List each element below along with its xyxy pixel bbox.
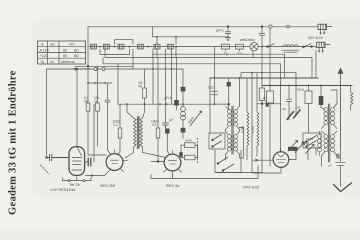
svg-text:weiß-blau: weiß-blau [240, 38, 255, 42]
table text [40, 43, 79, 64]
resistor zigzag Z2 [257, 73, 259, 156]
tube V2 leads [86, 150, 128, 176]
grid capacitor right of V1 [85, 104, 94, 166]
svg-text:1kΩ: 1kΩ [208, 86, 214, 90]
connector circle on top bus [269, 25, 289, 28]
svg-text:0,1: 0,1 [114, 123, 119, 127]
wire tube1 grid drop [76, 69, 78, 147]
resistor zigzag right edge [351, 86, 353, 111]
svg-text:RE0,3ə: RE0,3ə [166, 183, 180, 188]
wire upper link to cap [152, 36, 228, 38]
output transformer T2 core [232, 106, 233, 154]
svg-text:8Ω: 8Ω [74, 48, 79, 52]
switch box lower [215, 150, 241, 173]
svg-text:A 120: A 120 [40, 48, 49, 52]
resistor boxed on 262 [259, 88, 264, 101]
svg-text:4Ω: 4Ω [50, 43, 55, 47]
capacitor C-avc [105, 100, 111, 154]
wire antenna vertical [46, 69, 48, 158]
resistor boxed grid2 V4 [181, 155, 198, 160]
svg-text:≈2V RES164d: ≈2V RES164d [50, 187, 76, 192]
wire avc drops [88, 27, 112, 103]
voltage selector coil [282, 45, 299, 53]
wire right bus drops [262, 28, 316, 166]
svg-text:60: 60 [63, 54, 67, 58]
wire staple below boxes [100, 49, 130, 55]
switch S1 [267, 44, 274, 48]
node dots lamp row [99, 46, 263, 48]
label R-avc2 [94, 96, 100, 103]
svg-text:μF: μF [170, 118, 174, 122]
wire mid bus [118, 103, 228, 105]
volume pot column [181, 69, 186, 138]
capacitor block dark T2 lead [227, 82, 231, 87]
node junction top bus [261, 26, 263, 28]
capacitor in line C-r [286, 86, 291, 121]
wire right column drops [308, 148, 316, 160]
shield dash [41, 165, 50, 174]
svg-text:Antennw: Antennw [61, 60, 75, 64]
wire staple over boxes 1 [115, 40, 134, 45]
capacitor C-1k [211, 91, 218, 95]
svg-text:4Ω: 4Ω [84, 99, 89, 103]
svg-text:PP0 S3d: PP0 S3d [243, 185, 260, 190]
resistor R-avc2 [96, 103, 100, 146]
capacitor block dark V3 right [179, 152, 183, 157]
resistor boxed under bus 2 [305, 86, 312, 134]
output transformer T2 secondary [226, 132, 240, 155]
node dot V3 left [157, 161, 159, 163]
svg-text:‒4V: ‒4V [68, 43, 75, 47]
label R-t1 [113, 120, 121, 127]
node dot T2 lead [228, 103, 230, 105]
ground chevron [334, 183, 352, 192]
svg-text:Tɡ: Tɡ [40, 60, 44, 64]
wire screen mid link [258, 103, 282, 105]
antenna coupling capacitor [46, 154, 69, 161]
coil block L6 [168, 44, 174, 49]
coil block L2 [104, 44, 110, 49]
IF transformer T1 [125, 104, 166, 158]
wire dashed gridline [197, 138, 199, 163]
resistor 1M [143, 69, 147, 104]
wire drop 296 [295, 86, 297, 117]
adjustable tap dashes [287, 110, 300, 120]
tube V3 REN904 [164, 154, 181, 171]
tube V4 leads [252, 73, 296, 173]
wire grid stubs [181, 145, 198, 157]
coil block L1 [91, 44, 97, 49]
resistor zigzag Z1 [247, 78, 249, 160]
label R-avc1 [84, 96, 89, 103]
mains transformer T3 core [329, 104, 330, 162]
capacitor block dark screen [266, 100, 269, 106]
node dots screen link [251, 72, 263, 74]
wire staple over boxes 2 [157, 37, 176, 44]
svg-text:0,5M: 0,5M [185, 139, 192, 143]
switch S2 [303, 44, 313, 48]
wire B+ left drop [209, 78, 211, 133]
voltage table [38, 41, 86, 64]
capacitor block dark C-t3 [165, 125, 170, 155]
mains transformer T3 primary [321, 104, 337, 129]
wire lower link [105, 47, 312, 78]
svg-text:μF•1: μF•1 [165, 96, 172, 100]
resistor boxed under bus 1 [267, 91, 274, 103]
output transformer T2 primary [226, 106, 240, 130]
switch box left [209, 133, 225, 149]
svg-text:6Ω: 6Ω [74, 54, 79, 58]
node dots right bus [261, 77, 322, 105]
node dots grid bus right [97, 68, 173, 70]
node dots avc [87, 82, 106, 84]
wire upper lower link [152, 53, 285, 55]
speaker arrows [288, 141, 314, 154]
wire step link [133, 27, 215, 123]
label R-t2 [151, 120, 159, 127]
svg-text:RE0,3W: RE0,3W [100, 183, 116, 188]
tube V1 leads [63, 175, 92, 180]
svg-text:0,5M: 0,5M [251, 126, 255, 133]
mains transformer T3 secondary [318, 131, 338, 156]
wire lamp row bus [89, 46, 316, 48]
label Tg [225, 49, 227, 51]
wire mid link [103, 58, 281, 105]
tube V2 REN904 [106, 154, 123, 171]
node heater blob [91, 174, 93, 176]
wire top bus [88, 26, 316, 28]
svg-text:80: 80 [63, 48, 67, 52]
T2 leads [215, 78, 244, 160]
switch box right [303, 133, 321, 148]
resistor squiggle small [302, 142, 309, 145]
resistor R-t2 [151, 58, 164, 162]
wire nested loop bottom [151, 166, 262, 179]
node dot grid bus [76, 68, 78, 70]
wire grid bus left [47, 68, 184, 70]
svg-text:Geadem 33 tG mit 1 Endröhre: Geadem 33 tG mit 1 Endröhre [8, 70, 19, 215]
coil block L4 [138, 44, 144, 49]
mains plug P2 [317, 42, 331, 53]
svg-text:1ə: 1ə [50, 60, 54, 64]
node dot agc [87, 65, 89, 67]
capacitor block dark T3 feed [319, 86, 324, 108]
linkage arrow [74, 68, 76, 70]
T3 leads [322, 90, 341, 166]
dial lamp [250, 43, 258, 51]
wire B+ bus [210, 77, 318, 79]
capacitor C-t2 [163, 123, 169, 129]
wire screen link [241, 73, 296, 78]
node dot screen [261, 103, 263, 105]
pot arrow [190, 111, 202, 126]
svg-text:Tə: Tə [238, 52, 242, 56]
svg-text:+120: +120 [40, 54, 48, 58]
resistor Rg [222, 44, 230, 49]
tube V1 pin circles [68, 180, 85, 182]
svg-text:220÷110V: 220÷110V [308, 36, 324, 40]
wire right bus [262, 85, 352, 87]
tube V1 RES164d [69, 147, 85, 176]
coil block L3 [118, 44, 124, 49]
gang circles [94, 68, 105, 71]
resistor Ra [236, 44, 244, 49]
svg-text:μF×1: μF×1 [216, 29, 224, 33]
capacitor grounded C-top1 [225, 26, 231, 41]
label V1 [50, 182, 81, 192]
tube V4 output [273, 152, 289, 168]
label 1M [138, 81, 143, 89]
wire agc bus upper [75, 65, 133, 67]
svg-text:Tɡ: Tɡ [224, 52, 228, 56]
resistor R-t1 [117, 104, 122, 155]
arrow up right [340, 71, 342, 147]
tube V3 leads [164, 151, 182, 177]
label Ta [239, 49, 241, 51]
mains plug P1 [316, 24, 332, 35]
tuning gang linkage [72, 68, 92, 70]
node dots upper link [156, 36, 177, 38]
svg-text:μF: μF [329, 164, 333, 168]
ground lead right [336, 147, 346, 187]
node dots mid bus [126, 103, 215, 105]
capacitor grounded C-top2 [259, 27, 265, 47]
capacitor block dark horizontal [288, 147, 298, 151]
resistor R-avc1 [86, 103, 106, 155]
capacitor block dark uF1 [174, 58, 179, 111]
svg-text:0,3M: 0,3M [241, 126, 245, 133]
svg-text:50kΩ: 50kΩ [297, 87, 305, 91]
resistor boxed grid V4 [181, 143, 198, 148]
coil block L5 [154, 44, 160, 49]
node dots B+ [239, 77, 263, 79]
svg-text:0,5: 0,5 [152, 123, 157, 127]
svg-text:4Ω: 4Ω [138, 85, 143, 89]
